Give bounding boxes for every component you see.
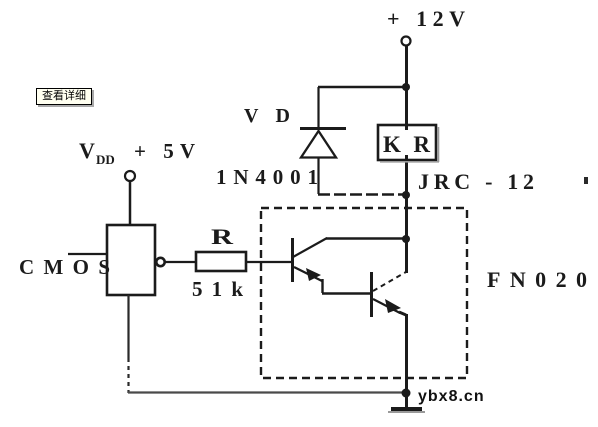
- ground: [388, 407, 425, 413]
- svg-text:ybx8.cn: ybx8.cn: [418, 388, 485, 405]
- wire CMOS output to resistor: [165, 261, 196, 263]
- label R: [211, 224, 235, 249]
- terminal VDD +5V: [79, 138, 195, 181]
- svg-text:JRC - 12: JRC - 12: [418, 169, 534, 194]
- label CMOS with overline: [19, 254, 110, 279]
- label FN020: [487, 267, 587, 292]
- relay coil KR: [378, 125, 439, 162]
- label 51k: [192, 277, 243, 301]
- wire diode branch vertical upper: [317, 87, 319, 128]
- power terminal +12V: [387, 6, 465, 46]
- transistor Q1 (first of darlington): [293, 238, 328, 293]
- wire horizontal top branch to diode: [318, 86, 407, 89]
- wire diode branch vertical lower: [317, 158, 319, 194]
- svg-text:+ 12V: + 12V: [387, 6, 465, 31]
- dashed module box FN020: [261, 208, 467, 378]
- junction node diode return on main rail: [402, 191, 410, 199]
- svg-text:+ 5V: + 5V: [134, 139, 195, 163]
- wire VDD terminal to CMOS gate top: [129, 181, 132, 227]
- label VD: [244, 105, 290, 127]
- watermark ybx8.cn: [418, 388, 485, 405]
- svg-text:CMOS: CMOS: [19, 255, 110, 279]
- wire main vertical from Q2 emitter node to ground: [405, 314, 408, 407]
- svg-text:DD: DD: [96, 152, 115, 167]
- svg-text:FN020: FN020: [487, 267, 587, 292]
- junction node at +12V rail and diode branch: [402, 83, 410, 91]
- wire diode bottom horizontal to main rail: [318, 193, 406, 196]
- wire Q1 emitter to Q2 base: [322, 292, 370, 294]
- svg-text:51k: 51k: [192, 277, 243, 301]
- wire Q1 collector horizontal to main rail: [326, 237, 406, 240]
- stray scan mark: [584, 177, 588, 184]
- wire bottom return to ground node: [128, 391, 404, 393]
- transistor Q2 (second of darlington): [372, 272, 407, 317]
- wire resistor to Q1 base: [246, 261, 291, 263]
- wire main vertical from +12V terminal to Q2 collector node: [405, 46, 408, 274]
- wire CMOS gate bottom down: [127, 295, 129, 393]
- svg-text:V: V: [79, 138, 95, 163]
- junction node at ground return: [402, 389, 411, 398]
- svg-text:R: R: [211, 224, 235, 249]
- tooltip button 查看详细: [36, 88, 92, 105]
- svg-text:VD: VD: [244, 105, 290, 127]
- junction node Q1 collector on main rail: [402, 235, 410, 243]
- label JRC-12: [418, 169, 534, 194]
- CMOS gate U1: [107, 225, 165, 295]
- label 1N4001: [216, 165, 318, 189]
- resistor R 51k: [196, 252, 246, 271]
- svg-text:1N4001: 1N4001: [216, 165, 318, 189]
- diode VD (flyback across relay coil): [300, 129, 346, 158]
